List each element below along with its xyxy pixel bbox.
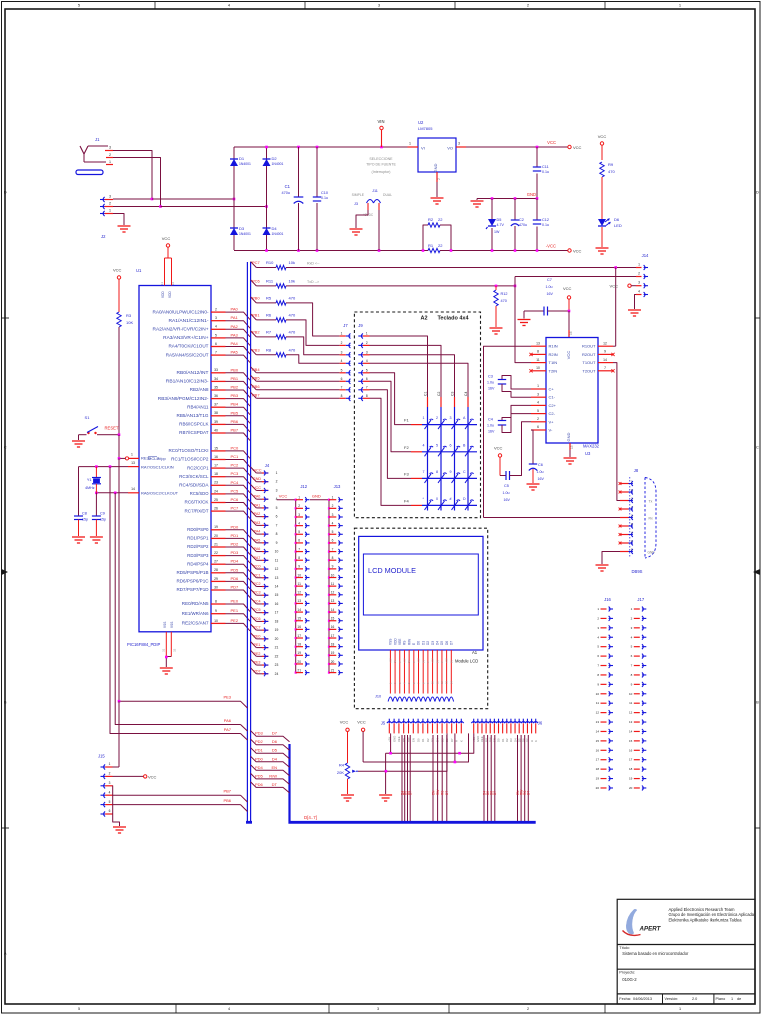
border center arrow left — [2, 569, 9, 575]
svg-text:PB3: PB3 — [231, 393, 239, 398]
svg-text:RC7/RX/DT: RC7/RX/DT — [185, 508, 209, 513]
svg-text:32: 32 — [173, 648, 177, 652]
J8 pin 8 — [620, 525, 629, 527]
J9 pin 2 — [361, 343, 363, 348]
svg-text:1: 1 — [131, 453, 133, 457]
J14 pin 3 — [636, 285, 642, 287]
svg-text:14: 14 — [297, 608, 301, 612]
svg-text:PC6: PC6 — [252, 278, 261, 283]
svg-text:DUAL: DUAL — [383, 193, 392, 197]
svg-text:J1: J1 — [95, 137, 100, 142]
net PB6 wire from J15 pin5 — [113, 804, 241, 806]
wire net PD2 to D6 — [251, 739, 290, 750]
svg-text:7: 7 — [332, 547, 334, 551]
svg-text:38: 38 — [214, 411, 218, 415]
svg-text:RE1/WR/AN6: RE1/WR/AN6 — [182, 611, 209, 616]
svg-text:C2: C2 — [519, 218, 524, 222]
svg-text:PE0: PE0 — [231, 599, 239, 604]
net PB1 exit with resistor R6 470 — [251, 314, 257, 320]
svg-text:R4: R4 — [339, 763, 345, 768]
svg-text:PB0: PB0 — [252, 295, 260, 300]
J14 pin 1 — [636, 267, 642, 269]
resistor R1 22 on -VCC rail — [423, 250, 428, 252]
node OSC2 PA6 riser junction — [114, 492, 117, 495]
J12 pin 4 — [295, 525, 297, 527]
wire PA7 riser — [110, 467, 241, 734]
svg-text:16: 16 — [331, 625, 335, 629]
svg-text:D0: D0 — [416, 738, 420, 742]
junction dots R1 R2 — [422, 249, 425, 252]
svg-text:LM7805: LM7805 — [418, 126, 433, 131]
wire net PD3 to bus — [226, 556, 251, 564]
svg-text:C7: C7 — [547, 278, 552, 282]
svg-text:Título:: Título: — [619, 946, 630, 950]
wire J9 pin4 to keypad column C4 — [370, 363, 469, 397]
svg-text:RB4/AN11: RB4/AN11 — [187, 404, 209, 409]
svg-text:3: 3 — [341, 350, 343, 354]
LCD pin wires to J10 — [389, 650, 391, 694]
svg-text:4: 4 — [109, 790, 111, 794]
keypad key D — [465, 501, 472, 510]
wire R1OUT to RxD net — [613, 345, 616, 347]
J12 rail vertical — [295, 500, 297, 673]
J5 pin 12 — [440, 722, 445, 723]
keypad column C1 — [427, 397, 429, 407]
node RxD junction to R1OUT — [614, 266, 617, 269]
svg-text:RESET: RESET — [105, 426, 119, 431]
svg-text:6: 6 — [298, 539, 300, 543]
svg-text:20: 20 — [629, 786, 633, 790]
svg-text:PB4: PB4 — [231, 402, 239, 407]
net PB6 exit to J7 — [251, 384, 257, 390]
svg-text:C6: C6 — [538, 463, 543, 467]
svg-text:VCC: VCC — [162, 236, 171, 241]
wire J14 pin2 TxD link — [515, 276, 638, 278]
svg-text:PA2: PA2 — [254, 512, 261, 516]
svg-text:8: 8 — [537, 350, 539, 354]
svg-text:PB6: PB6 — [231, 419, 239, 424]
svg-text:V: V — [398, 661, 402, 663]
J12 pin 17 — [295, 637, 297, 639]
svg-text:RE2/CS/AN7: RE2/CS/AN7 — [182, 621, 209, 626]
J15 pin 4 — [104, 793, 106, 798]
svg-text:PD3: PD3 — [255, 731, 264, 736]
svg-text:U1: U1 — [136, 268, 142, 273]
svg-text:RxD <--: RxD <-- — [307, 262, 320, 266]
J12 pin 5 — [295, 533, 297, 535]
J16 pin 16 — [601, 749, 607, 751]
resistor R9 470 — [600, 162, 604, 177]
svg-text:D1: D1 — [239, 156, 245, 161]
svg-text:de: de — [737, 997, 741, 1001]
svg-text:1: 1 — [731, 997, 733, 1001]
svg-text:C: C — [756, 445, 759, 450]
svg-text:VCC: VCC — [494, 446, 503, 451]
svg-text:PB7: PB7 — [252, 392, 260, 397]
svg-text:C2+: C2+ — [549, 403, 557, 408]
J6 pin 11 — [513, 722, 518, 723]
keypad key C — [465, 474, 472, 483]
svg-text:1.0u: 1.0u — [487, 424, 494, 428]
wire VCC2 to rail — [362, 732, 364, 763]
J13 pin 3 — [328, 516, 330, 518]
svg-text:R5: R5 — [266, 295, 272, 300]
wire PB2 to J7 — [286, 337, 340, 355]
svg-text:10: 10 — [596, 692, 600, 696]
wire J5/J6 D4 to D bus — [401, 735, 403, 821]
svg-text:3: 3 — [638, 281, 640, 285]
svg-text:3: 3 — [215, 316, 217, 320]
svg-text:R1OUT: R1OUT — [582, 344, 596, 349]
svg-text:RA1/AN1/C12IN1-: RA1/AN1/C12IN1- — [169, 318, 210, 323]
J6 pin 8 — [500, 722, 505, 723]
svg-text:D7: D7 — [409, 791, 413, 795]
svg-text:3: 3 — [332, 513, 334, 517]
wire J5/J6 RW to D bus — [437, 735, 439, 821]
wire D6 to ground — [601, 227, 603, 247]
capacitor C2 470u polarized — [514, 199, 516, 220]
keypad key 6 — [452, 447, 459, 456]
wire J9 pin5 to keypad row F1 — [370, 373, 412, 425]
svg-text:RD5/PSP5/P1B: RD5/PSP5/P1B — [177, 570, 209, 575]
J4 pin 20 net PE0 — [251, 633, 257, 639]
J16 pin 11 — [601, 702, 607, 704]
svg-text:DT: DT — [527, 791, 531, 795]
svg-text:31: 31 — [162, 648, 166, 652]
svg-text:7: 7 — [276, 523, 278, 527]
wire net PC6 to bus — [226, 503, 251, 511]
J12 pin 6 — [295, 542, 297, 544]
svg-text:V: V — [440, 661, 444, 663]
U3 pin 8 R2IN — [531, 353, 546, 355]
svg-text:PA0: PA0 — [254, 495, 261, 499]
keypad key 0 — [438, 501, 445, 510]
J4 pin 13 net PC1 — [251, 572, 257, 578]
svg-text:RB5/AN13/T1G: RB5/AN13/T1G — [177, 413, 210, 418]
node MCLR junction — [118, 457, 121, 460]
J9 pin 4 — [361, 361, 363, 366]
svg-text:VSS: VSS — [170, 622, 174, 628]
J13 pin 16 — [328, 628, 330, 630]
svg-text:PE2: PE2 — [231, 618, 239, 623]
wire net PC1 to bus — [226, 460, 251, 468]
J13 pin 21 — [328, 672, 330, 674]
keypad key 9 — [452, 474, 459, 483]
wire R1IN long net — [484, 346, 532, 517]
svg-text:D4: D4 — [435, 641, 439, 645]
wire R9 to D6 — [601, 177, 603, 219]
wire U3 GND to ground — [569, 450, 571, 457]
J16 pin 9 — [601, 683, 607, 685]
svg-text:GND: GND — [566, 432, 571, 441]
wire J9 pin2 to keypad column C2 — [370, 345, 442, 397]
J17 pin 5 — [634, 646, 640, 648]
svg-text:RA5/AN4/SS/C2OUT: RA5/AN4/SS/C2OUT — [166, 352, 209, 357]
svg-text:5: 5 — [276, 506, 278, 510]
svg-text:PD2: PD2 — [255, 739, 264, 744]
svg-text:3: 3 — [109, 146, 111, 150]
svg-text:PC7: PC7 — [231, 506, 240, 511]
wire U2 VO to VCC — [466, 146, 568, 148]
U3 pin 15 GND stub — [569, 443, 571, 450]
svg-text:D5: D5 — [440, 641, 444, 645]
wire J2 pin2 to AC2 node — [113, 206, 161, 208]
J7 pin 5 — [340, 372, 346, 374]
svg-text:PD5: PD5 — [231, 567, 240, 572]
J9 pin 6 — [361, 379, 363, 384]
keypad key 8 — [438, 474, 445, 483]
svg-text:J13: J13 — [334, 484, 341, 489]
svg-text:7: 7 — [423, 470, 425, 474]
svg-text:33: 33 — [214, 368, 218, 372]
wire bridge second column — [266, 147, 268, 250]
svg-text:6: 6 — [341, 377, 343, 381]
svg-text:C12: C12 — [542, 218, 549, 222]
svg-text:18: 18 — [214, 472, 218, 476]
svg-text:10: 10 — [331, 573, 335, 577]
svg-text:PD1: PD1 — [255, 748, 264, 753]
svg-text:C: C — [4, 445, 7, 450]
svg-text:PIC16F884_PDIP: PIC16F884_PDIP — [127, 642, 160, 647]
svg-text:8: 8 — [215, 599, 217, 603]
svg-text:3: 3 — [458, 142, 460, 146]
svg-text:C1-: C1- — [549, 395, 556, 400]
J6 pin 6 — [492, 722, 497, 723]
svg-text:PC0: PC0 — [253, 565, 260, 569]
svg-text:18: 18 — [297, 642, 301, 646]
diode D4 1N4001 — [263, 228, 271, 235]
wire J5/J6 D6 to D bus — [407, 735, 409, 821]
svg-text:GND: GND — [433, 163, 438, 172]
svg-text:EN: EN — [271, 765, 277, 770]
svg-text:GND: GND — [527, 192, 536, 197]
J12 pin 9 — [295, 568, 297, 570]
svg-text:J6: J6 — [538, 721, 543, 726]
wire PC7 RxD to J14 pin1 — [286, 267, 638, 269]
svg-text:C9: C9 — [100, 512, 105, 516]
svg-text:DT: DT — [272, 782, 278, 787]
svg-text:V: V — [426, 661, 430, 663]
svg-text:Proyecto:: Proyecto: — [619, 971, 635, 975]
svg-text:R2IN: R2IN — [549, 352, 558, 357]
svg-text:15: 15 — [275, 593, 279, 597]
wire OSC2 net — [96, 492, 128, 494]
svg-text:RE0/RD/AN5: RE0/RD/AN5 — [182, 601, 209, 606]
J4 pin 7 net PA3 — [251, 519, 257, 525]
svg-text:VCC: VCC — [566, 351, 571, 360]
wire J11 left to ground — [356, 210, 368, 228]
ground below R12 — [490, 327, 503, 329]
J17 pin 13 — [634, 721, 640, 723]
J5 pin 2 — [392, 722, 397, 723]
svg-text:MAX232: MAX232 — [583, 444, 600, 449]
svg-text:18: 18 — [275, 619, 279, 623]
J17 pin 11 — [634, 702, 640, 704]
svg-text:1: 1 — [537, 384, 539, 388]
J9 pin 1 — [361, 333, 363, 338]
svg-text:RA2/AN2/VR-/CVR/C2IN+: RA2/AN2/VR-/CVR/C2IN+ — [153, 327, 210, 332]
svg-text:22: 22 — [275, 654, 279, 658]
svg-text:VCC: VCC — [610, 284, 619, 289]
J4 pin 17 net PC5 — [251, 607, 257, 613]
svg-text:3: 3 — [450, 416, 452, 420]
J17 pin 4 — [634, 636, 640, 638]
svg-text:PB6: PB6 — [223, 798, 231, 803]
keypad column C2 — [440, 397, 442, 407]
svg-text:J14: J14 — [642, 253, 649, 258]
svg-text:D7: D7 — [272, 731, 278, 736]
svg-text:J16: J16 — [604, 597, 611, 602]
J4 pin 15 net PC3 — [251, 589, 257, 595]
svg-text:4: 4 — [341, 359, 343, 363]
J13 pin 12 — [328, 594, 330, 596]
svg-text:16: 16 — [214, 455, 218, 459]
node OSC1 PA7 riser junction — [109, 465, 112, 468]
node AC1 — [151, 198, 154, 201]
svg-text:VEE: VEE — [397, 736, 401, 742]
svg-text:8: 8 — [366, 394, 368, 398]
svg-text:1: 1 — [638, 263, 640, 267]
svg-text:PD5: PD5 — [255, 773, 264, 778]
svg-text:5V: 5V — [393, 660, 397, 663]
svg-text:D: D — [756, 190, 759, 195]
wire net PC3 to bus — [226, 477, 251, 485]
svg-text:6: 6 — [215, 342, 217, 346]
node AC2 — [159, 205, 162, 208]
svg-text:16V: 16V — [538, 477, 545, 481]
svg-text:9: 9 — [604, 350, 606, 354]
wire net PD3 to D7 — [251, 731, 290, 742]
wire net PD1 to bus — [226, 538, 251, 546]
wire J5 pin14 to VCC rail — [454, 733, 456, 762]
wire net PA0 to bus — [226, 312, 251, 320]
svg-text:PE0: PE0 — [254, 634, 261, 638]
svg-text:D3: D3 — [431, 641, 435, 645]
J17 pin 17 — [634, 759, 640, 761]
J5 pin 13 — [444, 722, 449, 723]
svg-text:PA2: PA2 — [231, 324, 239, 329]
svg-text:C8: C8 — [82, 512, 87, 516]
svg-text:R1: R1 — [428, 243, 434, 248]
svg-text:1: 1 — [341, 332, 343, 336]
J17 pin 20 — [634, 787, 640, 789]
svg-text:C2: C2 — [437, 392, 441, 396]
svg-text:5: 5 — [215, 333, 217, 337]
svg-text:PA6: PA6 — [224, 718, 232, 723]
J17 pin 1 — [634, 608, 640, 610]
J6 pin 2 — [475, 722, 480, 723]
svg-text:15: 15 — [596, 739, 600, 743]
wire PC6 TxD to T1IN riser — [286, 285, 515, 287]
svg-text:RD4/PSP4: RD4/PSP4 — [187, 561, 209, 566]
border tick marks right edge — [755, 317, 760, 319]
wire VCC to R9 — [601, 145, 603, 160]
svg-text:1: 1 — [276, 471, 278, 475]
LCD outer box — [359, 536, 483, 650]
wire PA6 riser — [115, 493, 240, 725]
svg-text:10: 10 — [275, 550, 279, 554]
J13 pin 8 — [328, 559, 330, 561]
svg-text:19: 19 — [629, 777, 633, 781]
wire net PC2 to bus — [226, 468, 251, 476]
capacitor C9 15p — [92, 515, 101, 517]
svg-text:7: 7 — [604, 366, 606, 370]
J8 pin 3 — [620, 517, 629, 519]
svg-text:20: 20 — [275, 637, 279, 641]
wire J5/J6 RS to D bus — [524, 735, 526, 821]
wire reset node to U1 pin1 — [118, 435, 120, 459]
svg-text:7: 7 — [366, 385, 368, 389]
J1 pin stubs — [105, 150, 113, 152]
svg-text:4: 4 — [332, 521, 334, 525]
J16 pin 15 — [601, 740, 607, 742]
logo APERT swoosh — [626, 909, 637, 934]
svg-text:PD6: PD6 — [255, 782, 264, 787]
J4 pin 4 net PA0 — [251, 493, 257, 499]
J12 pin 2 — [295, 507, 297, 509]
wire U2 GND to ground — [436, 182, 438, 197]
svg-text:470: 470 — [289, 329, 296, 334]
svg-text:1: 1 — [409, 142, 411, 146]
J16 pin 1 — [601, 608, 607, 610]
svg-text:PA6: PA6 — [254, 547, 261, 551]
keypad key * — [425, 501, 432, 510]
svg-text:C3: C3 — [488, 375, 493, 379]
svg-text:GND: GND — [648, 551, 656, 555]
U3 pin 13 R1IN — [531, 345, 546, 347]
svg-text:34: 34 — [214, 377, 218, 381]
svg-text:37: 37 — [214, 403, 218, 407]
svg-text:RD0/PSP0: RD0/PSP0 — [187, 527, 209, 532]
wire net PD0 to bus — [226, 530, 251, 538]
wire rail GND to ground — [385, 753, 387, 794]
svg-text:A2: A2 — [420, 316, 427, 322]
svg-text:3: 3 — [298, 513, 300, 517]
svg-text:PD4: PD4 — [255, 765, 264, 770]
wire net PA5 to bus — [226, 355, 251, 363]
J12 pin 12 — [295, 594, 297, 596]
svg-text:RD2/PSP2: RD2/PSP2 — [187, 544, 209, 549]
diode D2 1N4001 — [263, 159, 271, 166]
svg-text:3: 3 — [537, 392, 539, 396]
ground below U3 — [564, 457, 577, 459]
svg-text:17: 17 — [214, 464, 218, 468]
svg-text:20: 20 — [297, 660, 301, 664]
node OSC2 crystal junction — [95, 492, 98, 495]
svg-text:PA1: PA1 — [231, 315, 239, 320]
bus LCD mini vertical — [288, 744, 290, 821]
svg-text:Teclado 4x4: Teclado 4x4 — [437, 316, 469, 322]
node TxD R12 junction — [495, 285, 498, 288]
J4 pin 11 net PA7 — [251, 554, 257, 560]
J4 pin 14 net PC2 — [251, 580, 257, 586]
svg-text:PA3: PA3 — [231, 332, 239, 337]
svg-text:1.0u: 1.0u — [503, 491, 510, 495]
wire J5/J6 D5 to D bus — [404, 735, 406, 821]
svg-text:22: 22 — [214, 551, 218, 555]
J5 pin 8 — [420, 722, 425, 723]
svg-text:J10: J10 — [375, 695, 381, 699]
svg-text:22: 22 — [438, 217, 443, 222]
title block outer box — [617, 899, 755, 1004]
potentiometer R4 20K — [347, 732, 349, 764]
svg-text:19: 19 — [596, 777, 600, 781]
U2 pin 3 stub — [456, 146, 466, 148]
J13 pin 18 — [328, 646, 330, 648]
svg-text:J2: J2 — [101, 234, 106, 239]
bus main vertical double line — [246, 262, 248, 822]
svg-text:6: 6 — [332, 539, 334, 543]
